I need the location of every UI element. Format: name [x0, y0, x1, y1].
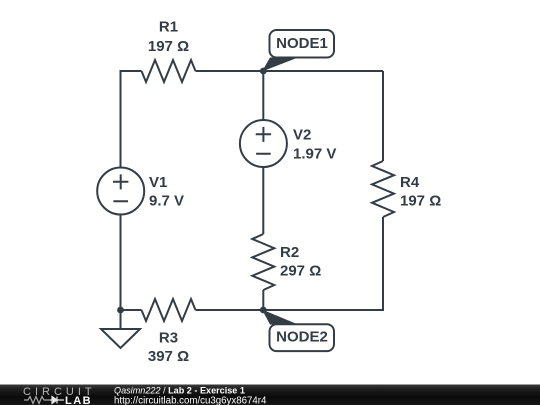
svg-text:9.7 V: 9.7 V: [149, 193, 184, 210]
ground symbol triangle: [101, 329, 140, 348]
node junction dot NODE2: [260, 307, 267, 314]
node flag NODE2 pointer: [262, 310, 298, 325]
node junction dot at ground/left rail: [117, 307, 124, 314]
svg-text:V2: V2: [293, 127, 311, 144]
node junction dot NODE1: [260, 68, 267, 75]
wire bottom rail node2 to R3: [196, 309, 264, 311]
resistor R1: [142, 60, 196, 82]
svg-text:R4: R4: [400, 174, 420, 191]
wire top-left corner (top rail to V1 top lead): [121, 71, 142, 168]
node flag NODE1 pointer: [262, 58, 298, 72]
resistor R2: [252, 234, 274, 290]
wire V2 bottom to R2 top: [262, 167, 264, 234]
footer bar: [0, 385, 540, 405]
wire R3 left lead: [121, 309, 142, 311]
svg-text:R1: R1: [159, 19, 178, 36]
svg-text:Qasimn222 / Lab 2 - Exercise 1: Qasimn222 / Lab 2 - Exercise 1: [114, 386, 245, 396]
node flag NODE1 box: [270, 30, 335, 58]
footer logo resistor squiggle: [24, 397, 50, 404]
svg-text:NODE1: NODE1: [276, 35, 328, 52]
svg-text:R3: R3: [159, 330, 178, 347]
voltage source V2: [240, 120, 287, 167]
node flag NODE2 box: [270, 324, 335, 351]
svg-text:LAB: LAB: [65, 395, 92, 405]
wire right branch lower + bottom-right corner: [263, 217, 383, 310]
svg-text:http://circuitlab.com/cu3g6yx8: http://circuitlab.com/cu3g6yx8674r4: [114, 396, 267, 405]
resistor R4: [372, 161, 394, 217]
wire middle branch top lead: [262, 71, 264, 120]
resistor R3: [142, 299, 196, 321]
voltage source V1: [97, 168, 144, 215]
ground symbol lead: [120, 310, 122, 329]
svg-text:197 Ω: 197 Ω: [400, 193, 441, 210]
svg-text:297 Ω: 297 Ω: [280, 263, 321, 280]
wire R2 bottom to node2: [262, 290, 264, 310]
wire right branch upper: [382, 71, 384, 161]
svg-text:197 Ω: 197 Ω: [148, 38, 189, 55]
wire left branch lower (V1 bottom to bottom rail): [120, 215, 122, 311]
svg-text:R2: R2: [280, 244, 299, 261]
svg-text:397 Ω: 397 Ω: [148, 348, 189, 365]
svg-text:V1: V1: [149, 174, 167, 191]
svg-text:NODE2: NODE2: [276, 329, 328, 346]
wire top rail right of R1 to node1 and on to right branch: [196, 70, 384, 72]
footer logo diode: [50, 397, 64, 404]
svg-text:1.97 V: 1.97 V: [293, 146, 336, 163]
